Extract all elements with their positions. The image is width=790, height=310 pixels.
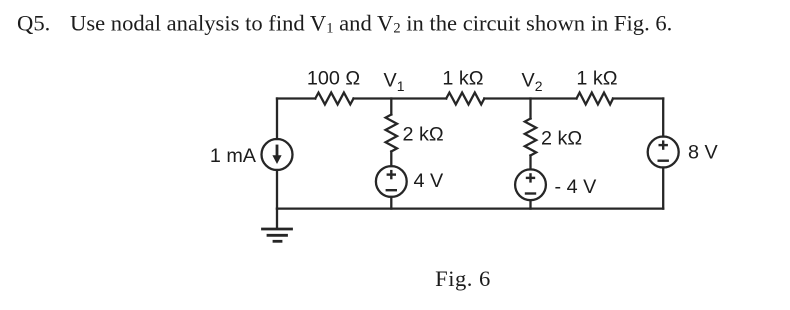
wire: node V1 stub from top rail to 2k resistor (390, 99, 392, 115)
wire: top rail between first 1k resistor and second 1k resistor (through node V2) (484, 97, 576, 99)
wire: between right 2k resistor and -4V source (529, 156, 531, 170)
wire: right branch upper segment (662, 99, 664, 137)
resistor 2 kohm (left, vertical) (386, 115, 397, 152)
voltage source 4V plus sign (387, 171, 396, 190)
svg-text:1 mA: 1 mA (210, 145, 257, 167)
svg-text:Q5.Use nodal analysis to find: Q5.Use nodal analysis to find V1 and V2 … (17, 10, 672, 36)
svg-text:Fig. 6: Fig. 6 (435, 266, 491, 291)
resistor 2 kohm (right, vertical) (525, 119, 536, 156)
voltage source 8V plus sign (659, 142, 668, 161)
wire: bottom rail (277, 207, 663, 209)
resistor 100 ohm (315, 93, 353, 105)
resistor 1 kohm (left) (446, 93, 484, 105)
voltage source 4V circle (376, 166, 407, 197)
wire: top rail left segment from left corner to 100ohm resistor (277, 97, 315, 99)
resistor 1 kohm (right) (577, 93, 614, 105)
wire: between left 2k resistor and 4V source (390, 152, 392, 167)
wire: top rail between 100 ohm and first 1k resistor (through node V1) (354, 97, 447, 99)
wire: node V2 stub from top rail to 2k resistor (529, 99, 531, 119)
voltage source -4V circle (515, 169, 546, 200)
voltage source -4V plus sign (526, 174, 535, 193)
voltage source 8V minus sign (659, 159, 668, 161)
svg-text:- 4 V: - 4 V (555, 176, 598, 198)
svg-text:1 kΩ: 1 kΩ (442, 68, 483, 90)
ground (263, 229, 292, 241)
voltage source 8V circle (648, 137, 679, 168)
wire: -4V source to bottom rail (529, 200, 531, 208)
wire: left branch upper segment (276, 99, 278, 140)
wire: 4V source to bottom rail (390, 197, 392, 209)
svg-text:2 kΩ: 2 kΩ (541, 128, 582, 150)
wire: left branch lower segment (276, 170, 278, 209)
svg-text:8 V: 8 V (688, 142, 718, 164)
svg-text:V1: V1 (384, 70, 405, 94)
voltage source -4V minus sign (526, 192, 535, 194)
svg-text:V2: V2 (522, 70, 543, 94)
svg-text:2 kΩ: 2 kΩ (403, 123, 444, 145)
svg-text:1 kΩ: 1 kΩ (576, 68, 617, 90)
svg-text:4 V: 4 V (414, 170, 444, 192)
wire: stub from bottom rail to ground (276, 209, 278, 229)
voltage source 4V minus sign (387, 189, 396, 191)
wire: right branch lower segment (662, 168, 664, 209)
wire: top rail right segment to right corner (613, 97, 663, 99)
current source arrow pointing down (276, 146, 279, 156)
svg-text:100 Ω: 100 Ω (307, 68, 360, 90)
current source I1 1 mA circle (262, 139, 293, 170)
